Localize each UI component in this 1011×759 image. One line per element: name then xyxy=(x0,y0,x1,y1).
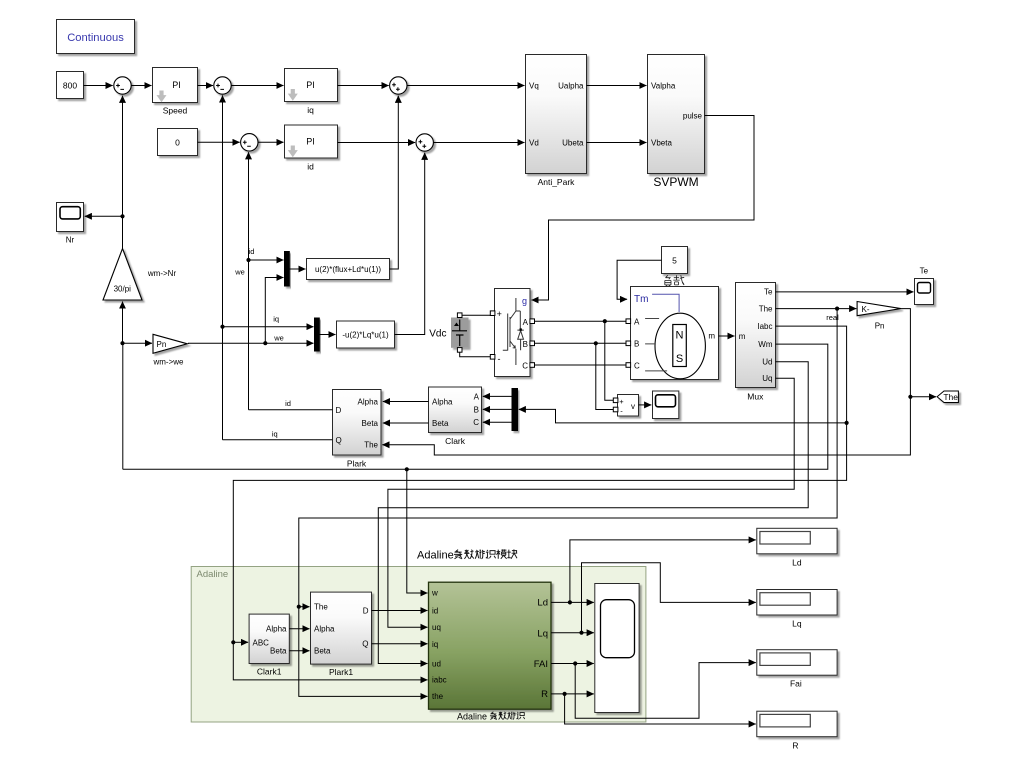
node A voltage tap xyxy=(603,319,607,323)
voltage measurement VM xyxy=(613,395,638,417)
svg-text:D: D xyxy=(336,406,342,415)
svg-text:iq: iq xyxy=(432,640,438,649)
constant 0 xyxy=(158,129,198,156)
svg-text:The: The xyxy=(314,603,328,612)
wire PI id to sum4 xyxy=(338,142,416,144)
scope V xyxy=(653,391,679,419)
wire junction to The tag xyxy=(910,396,936,398)
wire Te to scope xyxy=(776,291,914,293)
svg-text:The: The xyxy=(364,441,378,450)
wire FAI to display xyxy=(575,663,756,719)
wire junction to scope Nr xyxy=(85,215,123,217)
svg-text:PI: PI xyxy=(306,137,315,147)
wire Plark1 D to Adaline id xyxy=(372,610,428,612)
wire Ld to display xyxy=(570,540,756,603)
wire Speed to sum2 xyxy=(198,85,214,87)
motor PMSM block xyxy=(626,287,719,380)
node FAI junction xyxy=(573,661,577,665)
wire Fcn2 to sum4 xyxy=(395,153,425,335)
svg-text:Lq: Lq xyxy=(537,628,548,639)
wire id feedback vertical xyxy=(248,152,250,410)
wire demux to Clark A xyxy=(483,395,512,397)
node Iabc Clark1 junction xyxy=(231,640,235,644)
svg-text:PI: PI xyxy=(172,80,181,90)
svg-text:Tm: Tm xyxy=(634,294,648,305)
svg-text:Mux: Mux xyxy=(747,392,764,402)
wire sum2 to PI iq xyxy=(231,85,283,87)
display Lq xyxy=(757,590,837,629)
wire we branch to mux1 xyxy=(265,278,283,344)
svg-text:Beta: Beta xyxy=(362,419,379,428)
svg-text:u(2)*(flux+Ld*u(1)): u(2)*(flux+Ld*u(1)) xyxy=(315,265,381,274)
svg-text:B: B xyxy=(634,340,639,349)
svg-text:w: w xyxy=(431,589,438,598)
svg-text:ABC: ABC xyxy=(253,638,270,647)
svg-text:The: The xyxy=(759,304,773,313)
wire R to display xyxy=(565,694,756,724)
wire Wm from Mux xyxy=(123,344,828,469)
node id branch junction xyxy=(246,258,250,262)
wire constant5 to Tm xyxy=(617,260,661,299)
svg-text:we: we xyxy=(234,268,245,277)
wire mux2 to Fcn2 xyxy=(319,334,335,336)
subsystem SVPWM xyxy=(648,55,705,190)
constant 5 xyxy=(662,247,688,274)
svg-text:C: C xyxy=(634,362,640,371)
wire Plark D out xyxy=(249,409,333,411)
display Fai xyxy=(757,650,837,689)
svg-text:Alpha: Alpha xyxy=(432,397,453,406)
wire The to gain Pn2 xyxy=(776,308,857,310)
node Ld junction xyxy=(568,600,572,604)
subsystem Plark1 xyxy=(311,592,372,677)
wire Clark1 Alpha to Plark1 xyxy=(289,628,309,630)
svg-text:wm->Nr: wm->Nr xyxy=(147,269,177,278)
svg-text:800: 800 xyxy=(63,81,77,91)
wire the branch to Plark1 xyxy=(299,606,310,608)
wire sum5 to Anti_Park Vq xyxy=(407,85,525,87)
svg-text:iq: iq xyxy=(272,429,278,438)
svg-text:Te: Te xyxy=(764,288,773,297)
svg-text:Adaline: Adaline xyxy=(197,569,229,580)
svg-text:ud: ud xyxy=(432,659,441,668)
svg-text:Q: Q xyxy=(336,436,342,445)
svg-text:Beta: Beta xyxy=(432,419,449,428)
svg-text:S: S xyxy=(676,353,683,365)
wire battery plus to inverter xyxy=(462,314,490,316)
fcn F2 xyxy=(337,321,395,348)
node iq branch junction xyxy=(220,325,224,329)
gain 30/pi (wm->Nr) xyxy=(103,249,176,301)
goto tag The xyxy=(937,391,958,403)
svg-text:g: g xyxy=(522,296,527,306)
block Adaline identification xyxy=(429,582,552,709)
subsystem iq (PI) xyxy=(285,69,338,116)
svg-text:Nr: Nr xyxy=(66,236,75,245)
svg-text:B: B xyxy=(523,340,528,349)
wire iq branch to mux2 xyxy=(223,326,314,328)
mux M1 xyxy=(285,252,290,287)
node wm junction to Pn xyxy=(120,341,124,345)
node the to Plark1 junction xyxy=(297,605,301,609)
svg-text:Lq: Lq xyxy=(792,619,802,629)
wire Plark Q out xyxy=(223,439,333,441)
svg-text:Q: Q xyxy=(362,639,368,648)
svg-text:+: + xyxy=(497,309,502,319)
wire Adaline Ld out xyxy=(551,601,594,603)
svg-text:Uq: Uq xyxy=(762,374,772,383)
svg-text:Vd: Vd xyxy=(529,139,539,148)
wire speed feedback vertical xyxy=(122,344,124,470)
node Iabc demux junction xyxy=(845,421,849,425)
svg-text:SVPWM: SVPWM xyxy=(653,175,698,189)
svg-text:Beta: Beta xyxy=(314,647,331,656)
sum junction S3 xyxy=(241,134,258,151)
svg-text:Clark: Clark xyxy=(445,436,466,446)
svg-text:-: - xyxy=(498,354,501,364)
wire Uq from Mux xyxy=(388,378,794,627)
wire 0 to sum3 xyxy=(198,141,240,143)
wire Adaline FAI out xyxy=(551,663,594,665)
svg-text:uq: uq xyxy=(432,623,441,632)
svg-text:R: R xyxy=(541,689,548,700)
wire id branch to mux1 xyxy=(249,259,284,261)
node B voltage tap xyxy=(594,341,598,345)
node The real junction xyxy=(835,307,839,311)
svg-text:Pn: Pn xyxy=(157,340,167,349)
svg-text:Alpha: Alpha xyxy=(314,625,335,634)
bus selector Mux xyxy=(736,283,776,402)
svg-text:Plark1: Plark1 xyxy=(329,667,353,677)
wire inverter A to motor A xyxy=(535,320,629,322)
svg-text:Adaline: Adaline xyxy=(457,712,487,722)
svg-text:The: The xyxy=(943,392,958,402)
wire demux to Clark B xyxy=(483,408,512,410)
svg-text:K-: K- xyxy=(862,305,870,314)
wire Clark Alpha to Plark Alpha xyxy=(383,401,429,403)
svg-text:m: m xyxy=(708,331,715,340)
svg-text:iabc: iabc xyxy=(432,676,447,685)
wire Ubeta to Vbeta xyxy=(587,142,647,144)
node Lq junction xyxy=(579,631,583,635)
svg-text:D: D xyxy=(363,606,369,615)
svg-text:Anti_Park: Anti_Park xyxy=(538,177,576,187)
subsystem Anti_Park xyxy=(526,55,587,188)
svg-text:Iabc: Iabc xyxy=(757,322,772,331)
svg-text:pulse: pulse xyxy=(683,112,703,121)
svg-text:Pn: Pn xyxy=(875,322,885,331)
wire iq feedback vertical xyxy=(222,95,224,439)
wire K- out down to The bus xyxy=(382,309,910,455)
svg-text:Vq: Vq xyxy=(529,82,539,91)
wire Iabc from Mux xyxy=(233,326,846,680)
svg-text:A: A xyxy=(523,318,529,327)
svg-text:+: + xyxy=(619,397,624,406)
svg-text:id: id xyxy=(249,247,255,256)
svg-text:PI: PI xyxy=(306,80,315,90)
svg-text:Alpha: Alpha xyxy=(266,625,287,634)
subsystem Clark xyxy=(429,387,482,446)
label under constant5 (CJK fuzai) xyxy=(665,275,685,287)
wire wm to Pn xyxy=(123,342,153,344)
svg-text:Ud: Ud xyxy=(762,358,772,367)
svg-text:Ld: Ld xyxy=(537,598,548,609)
wire Iabc branch to Clark1 xyxy=(233,641,248,643)
constant 800 xyxy=(57,72,84,99)
wire B tap to VM minus xyxy=(596,343,614,409)
wire A tap to VM plus xyxy=(605,321,614,400)
svg-text:Valpha: Valpha xyxy=(651,82,676,91)
svg-text:Ualpha: Ualpha xyxy=(558,82,584,91)
svg-text:v: v xyxy=(631,402,635,411)
demux Iabc xyxy=(512,389,518,431)
svg-text:Speed: Speed xyxy=(163,106,188,116)
sum junction S4 xyxy=(416,134,433,151)
svg-text:the: the xyxy=(432,692,444,701)
wire Iabc branch to demux xyxy=(519,409,847,423)
svg-text:id: id xyxy=(432,607,438,616)
wire pulse to inverter g xyxy=(532,116,755,301)
wire sum3 to PI id xyxy=(258,141,284,143)
svg-text:Clark1: Clark1 xyxy=(257,667,282,677)
svg-text:Plark: Plark xyxy=(347,459,367,469)
node speed-scope junction xyxy=(120,214,124,218)
svg-text:Alpha: Alpha xyxy=(358,398,379,407)
scope Te xyxy=(915,266,934,304)
svg-text:iq: iq xyxy=(307,105,314,115)
wire motor m to Mux xyxy=(719,335,735,337)
wire Ualpha to Valpha xyxy=(587,85,647,87)
wire 30/pi out up to sum1 xyxy=(122,96,124,249)
svg-text:Fai: Fai xyxy=(790,679,802,689)
svg-text:N: N xyxy=(676,330,684,342)
svg-text:m: m xyxy=(739,332,746,341)
svg-text:Te: Te xyxy=(920,266,929,275)
svg-text:A: A xyxy=(474,392,480,401)
wire wm up into 30/pi xyxy=(122,302,124,344)
wire Lq to display xyxy=(582,563,756,633)
subsystem Clark1 xyxy=(249,614,289,676)
battery DC source xyxy=(451,313,469,352)
wire Adaline Lq out xyxy=(551,632,594,634)
display Ld xyxy=(757,528,837,567)
mux M2 xyxy=(315,318,320,351)
svg-text:id: id xyxy=(285,399,291,408)
wire Clark Beta to Plark Beta xyxy=(383,422,429,424)
wire demux to Clark C xyxy=(483,421,512,423)
inverter bridge block xyxy=(490,289,534,377)
svg-text:B: B xyxy=(474,405,479,414)
svg-text:FAI: FAI xyxy=(534,659,548,670)
fcn F1 xyxy=(307,259,390,280)
wire sum1 to Speed PI xyxy=(131,85,151,87)
wire inverter C to motor C xyxy=(535,364,629,366)
wire The real down to bus xyxy=(299,309,837,697)
annotation Continuous xyxy=(57,20,135,54)
svg-text:Ubeta: Ubeta xyxy=(562,139,584,148)
svg-text:C: C xyxy=(473,418,479,427)
wire mux1 to Fcn1 xyxy=(289,268,305,270)
svg-text:-u(2)*Lq*u(1): -u(2)*Lq*u(1) xyxy=(342,331,389,340)
wire PI iq to sum5 xyxy=(338,85,389,87)
wire 800 to sum1 xyxy=(84,85,113,87)
display R xyxy=(757,711,837,750)
svg-text:Vdc: Vdc xyxy=(429,329,446,340)
svg-text:A: A xyxy=(634,318,640,327)
sum junction S5 xyxy=(390,77,407,94)
svg-text:Vbeta: Vbeta xyxy=(651,139,672,148)
svg-text:Beta: Beta xyxy=(270,647,287,656)
subsystem Speed (PI) xyxy=(153,68,198,116)
node we branch junction xyxy=(263,341,267,345)
svg-text:R: R xyxy=(792,740,798,750)
gain Pn (wm->we) xyxy=(152,334,187,366)
sum junction S1 xyxy=(114,77,131,94)
wire Ud from Mux xyxy=(378,362,808,664)
svg-text:30/pi: 30/pi xyxy=(114,285,132,294)
scope Nr xyxy=(57,203,84,245)
svg-text:iq: iq xyxy=(273,315,279,324)
node w branch junction xyxy=(405,467,409,471)
node R junction xyxy=(563,692,567,696)
wire battery minus to inverter xyxy=(460,352,491,357)
node The goto junction xyxy=(908,395,912,399)
wire w branch to Adaline xyxy=(407,469,428,593)
wire inverter B to motor B xyxy=(535,342,629,344)
svg-text:Adaline: Adaline xyxy=(417,550,454,562)
gain Pn2 (K-) xyxy=(857,302,901,331)
svg-text:Ld: Ld xyxy=(792,557,802,567)
wire Clark1 Beta to Plark1 xyxy=(289,650,309,652)
svg-text:wm->we: wm->we xyxy=(152,358,184,367)
wire Plark1 Q to Adaline iq xyxy=(372,643,428,645)
wire sum4 to Anti_Park Vd xyxy=(433,142,524,144)
wire Adaline R out xyxy=(551,693,594,695)
svg-text:0: 0 xyxy=(175,137,180,147)
svg-text:5: 5 xyxy=(672,256,677,266)
scope multi xyxy=(595,584,639,713)
svg-text:Wm: Wm xyxy=(758,340,773,349)
region Adaline xyxy=(191,567,646,723)
svg-text:id: id xyxy=(307,162,314,172)
svg-text:C: C xyxy=(522,362,528,371)
wire we from Pn to mux2 xyxy=(188,342,314,344)
subsystem id (PI) xyxy=(285,125,338,172)
svg-text:Continuous: Continuous xyxy=(67,32,124,44)
svg-text:we: we xyxy=(273,334,284,343)
wire Fcn1 to sum5 xyxy=(390,96,399,269)
sum junction S2 xyxy=(214,77,231,94)
wire VM to scope V xyxy=(639,404,652,406)
subsystem Plark xyxy=(333,390,382,469)
